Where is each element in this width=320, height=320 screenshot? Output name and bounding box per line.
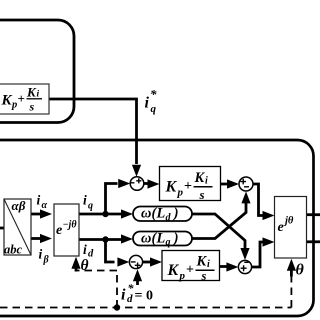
svg-text:abc: abc	[4, 243, 23, 257]
svg-text:i: i	[37, 193, 41, 208]
svg-text:ω(Ld ): ω(Ld )	[141, 206, 179, 224]
svg-text:q: q	[88, 201, 93, 212]
svg-text:p: p	[11, 100, 17, 111]
svg-text:K: K	[196, 254, 208, 270]
svg-text:i: i	[39, 247, 43, 262]
svg-text:p: p	[179, 270, 186, 282]
svg-text:θ: θ	[296, 262, 305, 279]
svg-text:i: i	[145, 95, 150, 112]
svg-text:i: i	[83, 242, 87, 257]
svg-text:θ: θ	[81, 257, 89, 274]
svg-text:+: +	[186, 263, 194, 278]
svg-text:i: i	[83, 193, 87, 208]
svg-text:K: K	[1, 93, 13, 109]
svg-text:K: K	[26, 85, 37, 100]
svg-text:s: s	[201, 269, 207, 283]
svg-text:e: e	[278, 220, 284, 235]
svg-text:q: q	[151, 103, 157, 115]
svg-text:jθ: jθ	[283, 216, 294, 227]
svg-text:β: β	[43, 255, 50, 266]
svg-text:K: K	[165, 179, 178, 196]
svg-text:i: i	[37, 90, 40, 100]
svg-text:αβ: αβ	[12, 198, 26, 213]
svg-text:+: +	[184, 179, 192, 194]
svg-text:s: s	[199, 187, 205, 202]
svg-text:i: i	[121, 287, 126, 304]
svg-text:K: K	[167, 262, 180, 279]
svg-text:p: p	[177, 187, 184, 199]
svg-text:i: i	[205, 176, 208, 187]
svg-text:*: *	[150, 87, 157, 102]
svg-text:e: e	[56, 223, 62, 238]
svg-text:ω(Lq ): ω(Lq )	[141, 230, 179, 248]
svg-text:= 0: = 0	[135, 289, 153, 304]
svg-text:d: d	[88, 249, 94, 260]
svg-text:s: s	[29, 100, 35, 114]
svg-text:−jθ: −jθ	[63, 220, 78, 231]
svg-text:K: K	[194, 170, 206, 186]
svg-text:d: d	[127, 293, 133, 305]
svg-text:+: +	[18, 91, 25, 106]
svg-text:i: i	[207, 259, 210, 270]
svg-text:α: α	[42, 200, 48, 211]
